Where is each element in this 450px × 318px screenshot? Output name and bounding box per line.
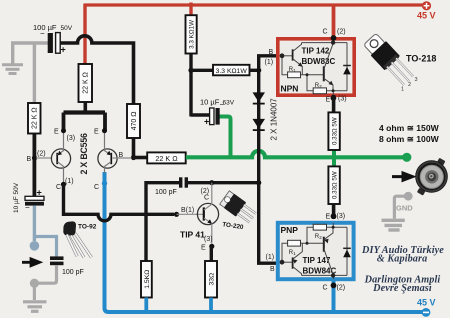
wire red drop to NPN collector <box>332 4 336 39</box>
capacitor 100uF 50V <box>33 23 73 55</box>
svg-text:TIP 41: TIP 41 <box>180 230 205 240</box>
diode D1 1N4007 <box>253 92 266 103</box>
wire Miller/compensation net <box>146 183 179 262</box>
ground (top left) <box>2 65 23 74</box>
PNP interior circuit <box>282 223 347 279</box>
svg-text:2: 2 <box>408 82 411 88</box>
svg-text:TO-92: TO-92 <box>78 224 97 231</box>
wire blue 1.5K to rail <box>144 298 148 312</box>
svg-text:1: 1 <box>401 87 404 93</box>
node NPN emitter exit <box>326 95 347 103</box>
NPN interior junction dots <box>280 40 336 92</box>
svg-text:4 ohm ≅ 150W: 4 ohm ≅ 150W <box>379 123 440 133</box>
svg-text:22 K Ω: 22 K Ω <box>155 154 178 163</box>
svg-text:C: C <box>94 184 99 191</box>
resistor 3.3K 1W (vertical) <box>186 15 197 53</box>
svg-text:GND: GND <box>396 204 413 213</box>
svg-text:−: − <box>40 29 45 38</box>
wire left collector to driver base (hop under blue) <box>64 184 175 221</box>
PNP internal diode <box>343 248 351 257</box>
transistor Q2 BC556 (right) <box>94 128 132 191</box>
svg-text:45 V: 45 V <box>417 298 436 308</box>
wire B node to 22K feedback <box>134 156 149 160</box>
wire blue 33 to rail <box>209 298 213 312</box>
svg-text:100 µF: 100 µF <box>33 23 57 32</box>
capacitor 10uF 63V <box>200 98 235 127</box>
svg-text:E: E <box>326 97 331 104</box>
wire to 3.3K horizontal <box>191 69 214 72</box>
node junction at 470/B <box>131 155 136 160</box>
svg-text:1.5KΩ: 1.5KΩ <box>144 270 151 289</box>
svg-text:NPN: NPN <box>281 84 299 94</box>
wire 100pF to bias line <box>188 181 259 184</box>
svg-text:E: E <box>54 128 59 135</box>
svg-text:470 Ω: 470 Ω <box>131 112 138 131</box>
wire 0.33 to PNP emitter <box>332 204 336 219</box>
wire steelblue branch to 100pF <box>34 237 56 257</box>
wire bias column <box>259 56 277 263</box>
wire thin base lead <box>36 157 52 159</box>
svg-text:8 ohm ≅ 100W: 8 ohm ≅ 100W <box>379 134 440 144</box>
resistor 1.5K <box>141 261 152 298</box>
node bias/driver collector <box>256 180 261 185</box>
wire green output line (hop over bias chain) <box>186 151 404 158</box>
svg-text:B: B <box>119 152 124 159</box>
wire gray to ground <box>33 283 36 300</box>
wire 3.3K down <box>189 54 192 117</box>
wire blue PNP collector to rail <box>332 281 336 311</box>
svg-text:E: E <box>326 214 331 221</box>
PNP interior junction dots <box>280 226 336 278</box>
transistor Q1 BC556 (left) <box>51 128 75 191</box>
svg-text:E: E <box>94 128 99 135</box>
svg-text:(1): (1) <box>65 178 74 185</box>
wire +45V red rail <box>85 3 426 6</box>
diode D2 1N4007 <box>253 119 266 130</box>
wire 470 to B node <box>132 138 136 158</box>
svg-text:+: + <box>204 117 209 127</box>
wire 22K down to input cap <box>33 134 37 197</box>
svg-text:50V: 50V <box>61 25 73 32</box>
transistor Q3 TIP 41 <box>180 183 219 252</box>
wire red stub to 3.3K resistor <box>189 3 192 17</box>
resistor 22K feedback <box>147 152 186 163</box>
speaker <box>415 158 448 196</box>
wire silver 100pF to ground <box>34 265 56 283</box>
TO-220 package <box>219 190 258 231</box>
node 3.3K junction <box>188 68 193 73</box>
svg-text:B: B <box>27 156 32 163</box>
svg-text:100 pF: 100 pF <box>155 189 177 196</box>
svg-text:B: B <box>270 266 275 273</box>
arrow to speaker <box>392 173 413 180</box>
terminal output green dot <box>402 153 411 162</box>
wire gray down to 22K bias (left) <box>33 43 36 104</box>
resistor 3.3K 1W (horizontal) <box>213 65 250 76</box>
svg-text:& Kapibara: & Kapibara <box>377 253 428 264</box>
svg-text:+: + <box>37 187 42 197</box>
svg-text:3.3 KΩ1W: 3.3 KΩ1W <box>189 20 196 49</box>
svg-text:B(1): B(1) <box>181 207 194 214</box>
node bias/3.3K <box>256 68 261 73</box>
svg-text:C: C <box>56 184 61 191</box>
resistor 22K (left bias) <box>28 103 41 134</box>
title text DIY Audio Turkiye <box>361 245 444 294</box>
wire base lead TIP41 <box>177 213 205 215</box>
input arrow <box>22 259 40 266</box>
NPN internal diode <box>343 66 351 75</box>
resistor 33 ohm <box>205 261 217 298</box>
ground GND (speaker) <box>382 192 414 230</box>
svg-text:2 X BC556: 2 X BC556 <box>79 133 89 175</box>
wire black from cap with hop over red <box>60 36 133 105</box>
capacitor 100pF (input) <box>50 256 84 276</box>
label 2 X 1N4007 <box>270 98 279 141</box>
svg-text:(2): (2) <box>337 29 346 36</box>
wire right emitter drop <box>103 113 107 131</box>
svg-text:−: − <box>25 203 30 212</box>
wire green output junction vertical <box>332 150 336 167</box>
svg-text:BDW83C: BDW83C <box>302 57 336 66</box>
svg-text:TO-218: TO-218 <box>406 54 436 64</box>
svg-text:22 K Ω: 22 K Ω <box>83 72 90 94</box>
NPN interior resistor R2 <box>313 83 326 94</box>
terminal -45V <box>417 298 436 317</box>
label 2 X BC556 <box>79 133 89 175</box>
wire 3.3K to bias column <box>250 69 259 72</box>
label 4ohm / 8ohm <box>379 123 440 144</box>
svg-text:C: C <box>323 285 328 292</box>
svg-text:C: C <box>323 29 328 36</box>
node input terminal <box>30 241 40 251</box>
node NPN collector entry <box>323 29 346 41</box>
svg-text:(3): (3) <box>338 96 347 103</box>
node gray <box>30 279 39 288</box>
wire emitter rail <box>64 110 106 114</box>
node NPN base entry <box>265 49 274 66</box>
node PNP collector dot <box>331 283 337 289</box>
svg-text:45 V: 45 V <box>417 11 436 21</box>
svg-text:+: + <box>61 45 66 55</box>
resistor 0.33 5W (bottom) <box>328 166 339 204</box>
NPN interior emitter arrows <box>298 62 333 85</box>
resistor 470 ohm <box>127 104 140 138</box>
svg-text:PNP: PNP <box>281 225 299 235</box>
PNP interior emitter arrows <box>293 239 329 264</box>
svg-text:Devre Şeması: Devre Şeması <box>372 283 432 294</box>
NPN interior resistor R1 <box>288 67 301 78</box>
wire 22K to emitter rail <box>84 102 88 113</box>
svg-text:22 K Ω: 22 K Ω <box>31 107 38 129</box>
node B of left transistor <box>27 151 46 164</box>
svg-text:3.3 KΩ1W: 3.3 KΩ1W <box>216 68 248 75</box>
op-amp-box NPN TIP142 module <box>278 39 354 95</box>
wire red drop to 22K bias resistor <box>83 4 86 65</box>
NPN interior circuit <box>282 39 347 95</box>
svg-text:63V: 63V <box>223 100 235 107</box>
svg-text:C: C <box>204 195 209 202</box>
PNP interior resistor R1 <box>288 240 301 256</box>
svg-text:(2): (2) <box>37 151 46 158</box>
terminal +45V <box>417 1 436 20</box>
op-amp-box PNP TIP147 module <box>278 223 354 279</box>
svg-text:3: 3 <box>415 77 418 83</box>
wire NPN emitter to 0.33 <box>332 95 336 113</box>
svg-text:(2): (2) <box>337 285 346 292</box>
svg-text:0.33Ω 5W: 0.33Ω 5W <box>331 117 338 145</box>
capacitor 100pF (Miller) <box>155 177 188 196</box>
node PNP base entry <box>266 254 276 273</box>
wire left emitter drop <box>62 113 66 131</box>
svg-text:(1): (1) <box>266 254 275 261</box>
svg-text:(3): (3) <box>337 213 346 220</box>
svg-text:(1): (1) <box>265 59 274 66</box>
svg-text:E: E <box>201 245 206 252</box>
svg-text:(3): (3) <box>67 135 76 142</box>
capacitor 10uF 50V (input coupling) <box>13 182 44 213</box>
svg-text:10 µF 50V: 10 µF 50V <box>13 182 20 213</box>
svg-text:100 pF: 100 pF <box>62 269 84 276</box>
wire TIP41 emitter to 33 ohm <box>210 246 213 262</box>
PNP interior resistor R2 <box>313 224 326 240</box>
resistor 22K (top, from +45V) <box>79 64 93 102</box>
svg-text:10 µF: 10 µF <box>200 98 220 107</box>
node PNP collector exit <box>323 285 346 292</box>
node PNP emitter entry <box>326 213 346 221</box>
TO-92 package <box>63 221 96 257</box>
svg-text:33Ω: 33Ω <box>209 273 216 286</box>
resistor 0.33 5W (top) <box>328 112 339 150</box>
TO-218 package <box>362 32 436 93</box>
ground (input) <box>23 302 47 312</box>
wire to 10uF63V <box>191 113 210 116</box>
node driver collector junction <box>209 180 214 185</box>
svg-text:0.33Ω 5W: 0.33Ω 5W <box>331 171 338 199</box>
svg-text:TIP 142: TIP 142 <box>302 47 330 56</box>
node driver base <box>174 212 179 217</box>
svg-text:(3): (3) <box>204 236 213 243</box>
svg-text:2 X 1N4007: 2 X 1N4007 <box>270 98 279 141</box>
wire green from 10uF63V <box>220 117 231 157</box>
wire gray ground to input cap <box>13 43 49 65</box>
wire -45V blue rail <box>105 172 427 312</box>
wire steelblue input <box>33 206 36 241</box>
svg-text:B: B <box>269 49 274 56</box>
